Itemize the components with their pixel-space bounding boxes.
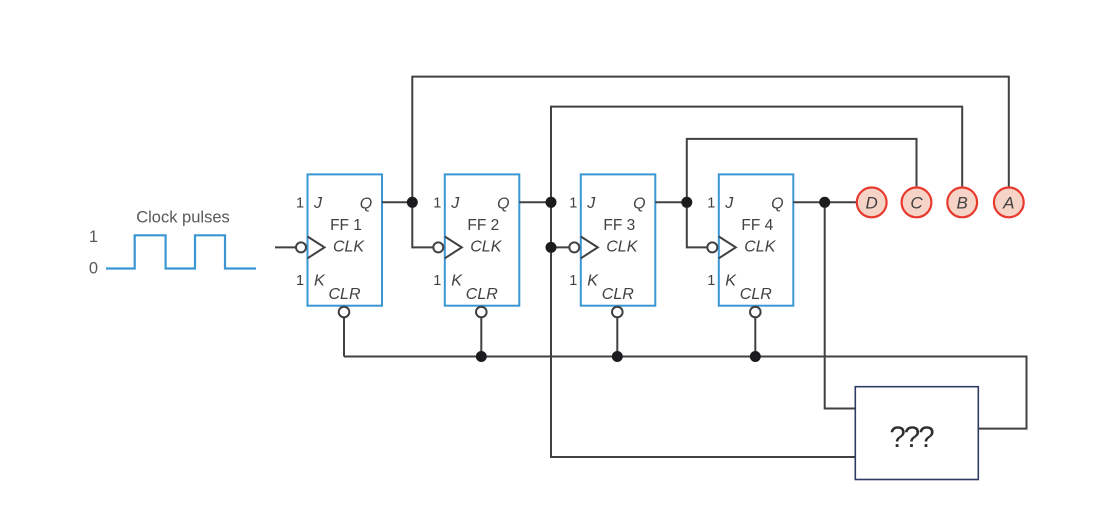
svg-text:J: J: [586, 195, 596, 212]
svg-text:FF 3: FF 3: [603, 217, 635, 234]
wire Q2 output: [519, 201, 551, 203]
svg-text:FF 4: FF 4: [741, 217, 773, 234]
junction CLR FF2: [476, 351, 487, 362]
svg-text:K: K: [314, 273, 326, 290]
svg-text:A: A: [1002, 194, 1014, 213]
junction Q4: [819, 197, 830, 208]
wire Q3 vertical to wire C and FF4 clock: [687, 139, 917, 248]
svg-text:0: 0: [89, 260, 98, 278]
junction CLR FF3: [612, 351, 623, 362]
svg-text:CLR: CLR: [740, 286, 772, 303]
svg-text:1: 1: [433, 273, 441, 289]
svg-text:1: 1: [569, 195, 577, 211]
svg-text:B: B: [957, 194, 968, 213]
svg-text:1: 1: [569, 273, 577, 289]
svg-text:C: C: [910, 194, 923, 213]
junction CLR FF4: [750, 351, 761, 362]
output node D: [857, 188, 887, 218]
svg-text:CLR: CLR: [466, 286, 498, 303]
svg-text:FF 1: FF 1: [330, 217, 362, 234]
svg-text:K: K: [725, 273, 737, 290]
wire FF3 clock branch: [551, 246, 569, 248]
svg-text:J: J: [450, 195, 460, 212]
wire Q4 vertical to ??? box: [825, 202, 856, 408]
wire Q3 output: [655, 201, 687, 203]
clock pulses waveform: [106, 235, 256, 268]
wire FF1 CLR drop: [343, 317, 345, 356]
svg-text:K: K: [587, 273, 599, 290]
mystery box ???: [855, 387, 978, 480]
flip-flop FF3: [569, 174, 655, 317]
flip-flop FF4: [707, 174, 793, 317]
svg-text:Q: Q: [771, 195, 783, 212]
svg-text:K: K: [451, 273, 463, 290]
svg-text:Q: Q: [497, 195, 509, 212]
svg-text:CLK: CLK: [744, 239, 776, 256]
svg-text:J: J: [313, 195, 323, 212]
output node C: [902, 188, 932, 218]
wire Q1 vertical to wire A and FF2 clock: [412, 77, 1009, 248]
wire CLR bus to ??? box: [344, 357, 1027, 429]
svg-text:Clock pulses: Clock pulses: [136, 208, 230, 226]
junction Q1: [407, 197, 418, 208]
junction Q2: [546, 197, 557, 208]
wire Q1 output: [382, 201, 412, 203]
svg-text:CLK: CLK: [333, 239, 365, 256]
flip-flop FF2: [433, 174, 519, 317]
junction FF3 clock: [546, 242, 557, 253]
wire Q2 vertical to wire B, FF3 clock, and ??? box: [551, 107, 962, 457]
svg-text:Q: Q: [633, 195, 645, 212]
output node A: [994, 188, 1024, 218]
svg-text:1: 1: [433, 195, 441, 211]
svg-text:???: ???: [889, 421, 934, 454]
svg-text:J: J: [724, 195, 734, 212]
svg-text:1: 1: [707, 273, 715, 289]
wire FF4 CLR drop: [754, 317, 756, 356]
svg-text:1: 1: [296, 273, 304, 289]
svg-text:1: 1: [89, 228, 98, 246]
flip-flop FF1: [296, 174, 382, 317]
wire Q4 output to D: [793, 201, 857, 203]
wire FF3 CLR drop: [616, 317, 618, 356]
svg-text:CLR: CLR: [328, 286, 360, 303]
svg-text:CLR: CLR: [602, 286, 634, 303]
wire clock input to FF1 CLK: [275, 246, 296, 248]
svg-text:1: 1: [707, 195, 715, 211]
svg-text:D: D: [866, 194, 878, 213]
output node B: [947, 188, 977, 218]
svg-text:FF 2: FF 2: [467, 217, 499, 234]
svg-text:CLK: CLK: [606, 239, 638, 256]
wire FF2 CLR drop: [480, 317, 482, 356]
svg-text:1: 1: [296, 195, 304, 211]
svg-text:CLK: CLK: [470, 239, 502, 256]
junction Q3: [681, 197, 692, 208]
svg-text:Q: Q: [360, 195, 372, 212]
